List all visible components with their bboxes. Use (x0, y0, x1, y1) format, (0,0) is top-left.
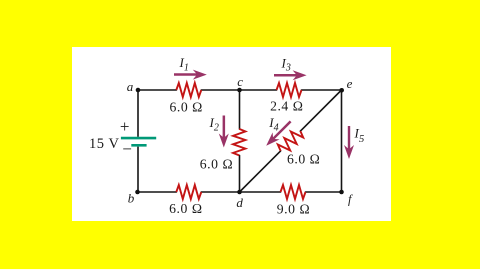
resistor R3 2.4 ohm top right (277, 83, 302, 97)
svg-text:a: a (127, 79, 134, 94)
svg-text:−: − (122, 140, 132, 159)
resistor R4 6.0 ohm diagonal (278, 131, 303, 151)
svg-text:6.0 Ω: 6.0 Ω (200, 156, 233, 171)
current arrow I2 (219, 116, 229, 148)
node c (237, 88, 242, 93)
battery 15 V short negative plate (131, 144, 146, 147)
wire R2 down to d (239, 155, 241, 192)
svg-text:+: + (120, 117, 130, 136)
current arrow I5 (344, 126, 354, 159)
node f (339, 190, 344, 195)
svg-text:6.0 Ω: 6.0 Ω (287, 152, 320, 167)
svg-text:d: d (236, 195, 243, 210)
resistor R5 6.0 ohm bottom left (176, 185, 201, 199)
current arrow I3 (274, 70, 307, 80)
node e (339, 88, 344, 93)
wire R4 to e diagonal (300, 90, 341, 131)
svg-text:6.0 Ω: 6.0 Ω (169, 201, 202, 216)
svg-text:15 V: 15 V (89, 136, 120, 152)
wire a down to battery (137, 90, 139, 136)
svg-text:e: e (347, 76, 353, 91)
current arrow I1 (174, 70, 207, 80)
white circuit panel (72, 47, 391, 221)
node b (135, 190, 140, 195)
node d (237, 190, 242, 195)
wire a to R1 (138, 89, 176, 91)
wire c down to R2 (239, 90, 241, 129)
svg-text:9.0 Ω: 9.0 Ω (277, 202, 310, 217)
svg-text:2.4 Ω: 2.4 Ω (270, 99, 303, 114)
current arrow I4 (266, 121, 291, 146)
wire R1 to c to R3 (201, 89, 276, 91)
wire battery down to b (137, 147, 139, 192)
wire R5 to d to R6 (201, 191, 280, 193)
wire d to R4 diagonal (240, 151, 281, 192)
node a (136, 88, 141, 93)
svg-text:c: c (237, 74, 243, 89)
resistor R1 6.0 ohm top left (176, 83, 201, 97)
svg-text:b: b (128, 191, 135, 206)
wire R3 to e (302, 89, 342, 91)
wire R6 to f (306, 191, 342, 193)
resistor R6 9.0 ohm bottom right (281, 185, 306, 199)
bottom edge light strip (0, 269, 480, 270)
svg-text:6.0 Ω: 6.0 Ω (169, 99, 202, 114)
wire e down to f (341, 90, 343, 192)
battery 15 V long positive plate (121, 137, 156, 140)
wire b to R5 (138, 191, 177, 193)
resistor R2 6.0 ohm middle vertical (233, 129, 245, 156)
